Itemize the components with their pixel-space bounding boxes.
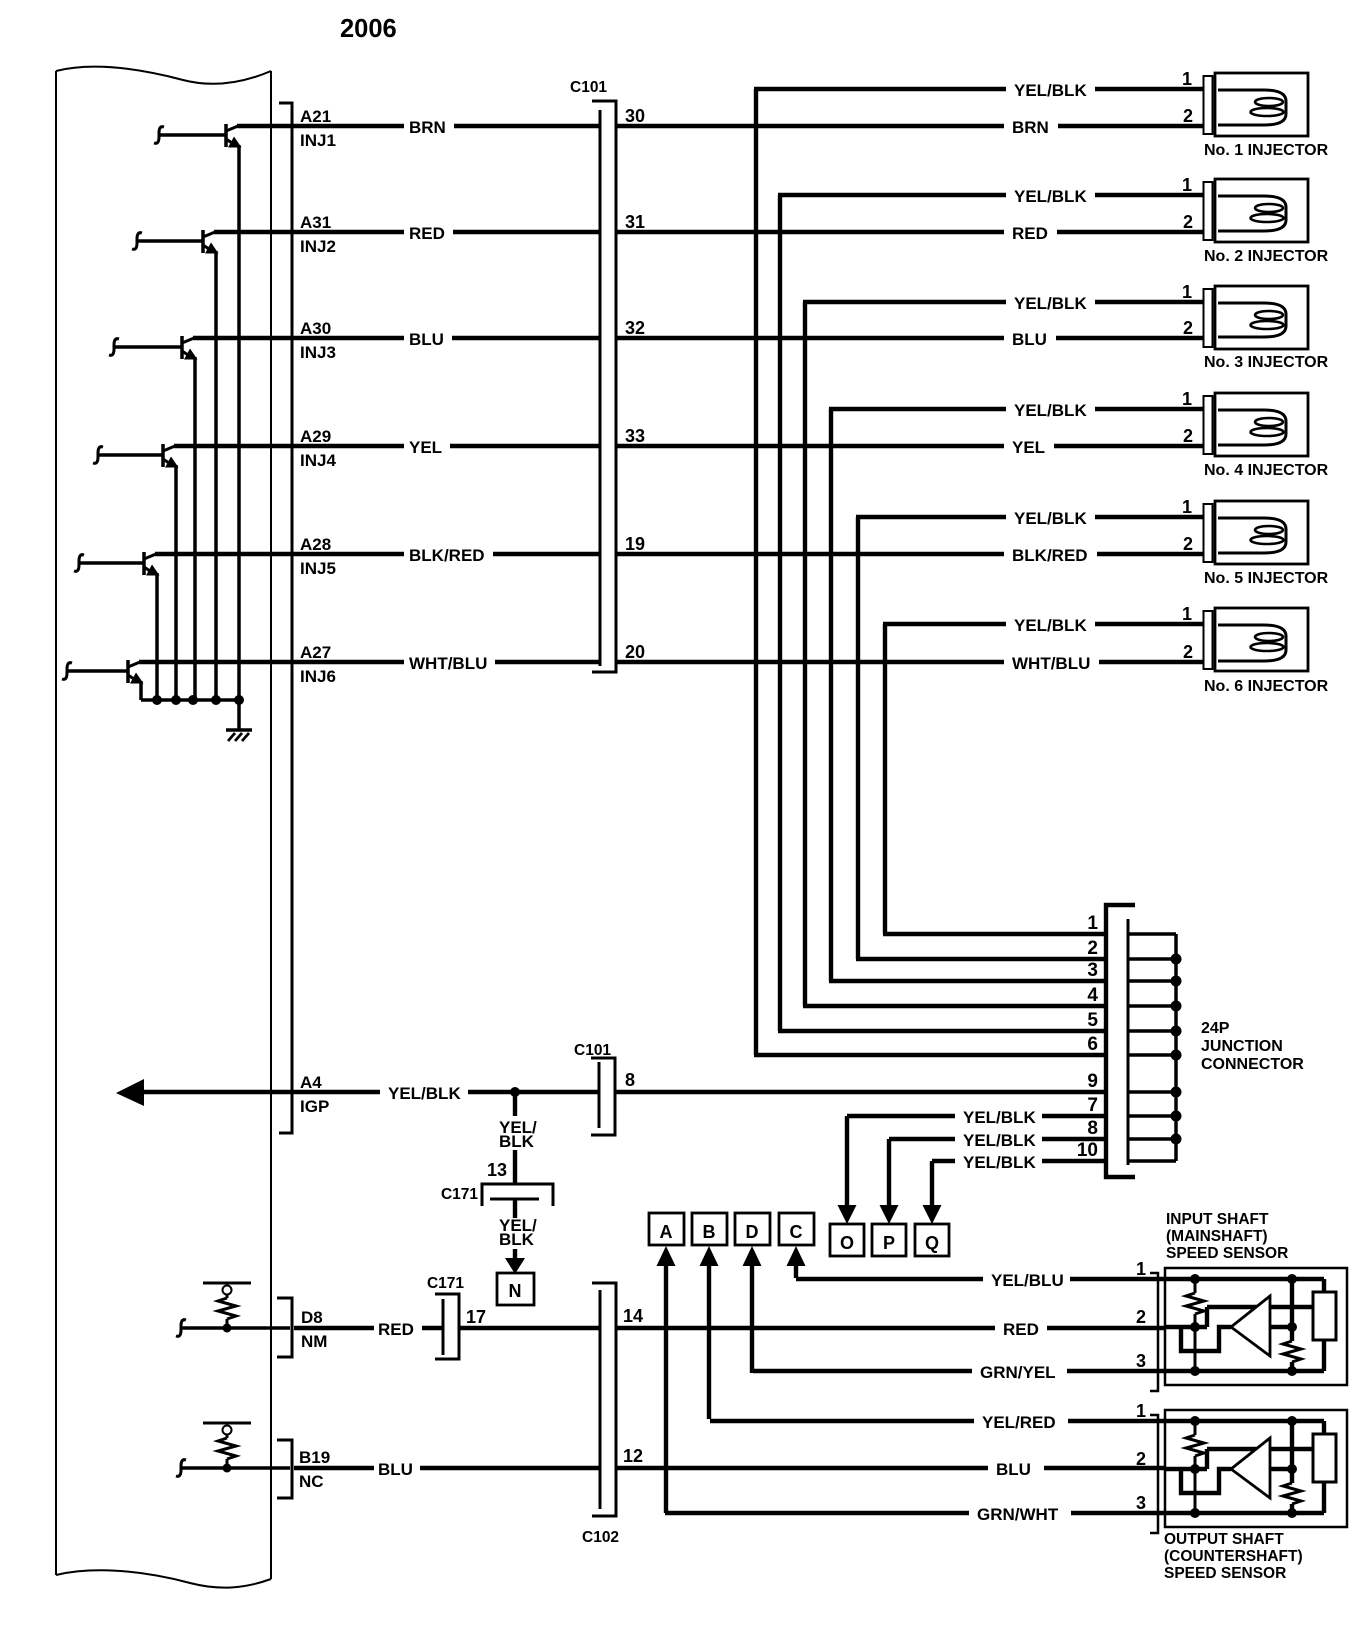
svg-text:1: 1 [1182, 282, 1192, 302]
wire YEL/BLK to injector 3 pin 1 [1095, 300, 1204, 304]
svg-text:A28: A28 [300, 535, 331, 554]
transistor Q5 (INJ5 driver) [74, 552, 160, 576]
wire RED to injector pin 2 [1057, 230, 1204, 234]
svg-text:A30: A30 [300, 319, 331, 338]
wire YEL C101 to injector 4 segment [616, 444, 1004, 448]
wire junction pin 4 horizontal [803, 1004, 1106, 1008]
wire C171 to N [513, 1199, 517, 1218]
wire BLU left [294, 1466, 374, 1470]
wire D8 stub [176, 1320, 290, 1337]
wire YEL/BLK A4 row left [142, 1090, 380, 1094]
wire BRN to injector pin 2 [1058, 124, 1204, 128]
wire bus to ground [237, 700, 241, 730]
node P box [872, 1224, 906, 1256]
svg-text:YEL: YEL [1012, 438, 1045, 457]
wire Q vertical from junction pin 10 [930, 1161, 934, 1208]
svg-text:6: 6 [1087, 1034, 1098, 1055]
wire junction pin 2 horizontal [856, 957, 1106, 961]
svg-text:32: 32 [625, 318, 645, 338]
arrow IGP continuation (points left) [116, 1079, 144, 1106]
svg-text:1: 1 [1182, 175, 1192, 195]
svg-text:1: 1 [1136, 1401, 1146, 1421]
svg-text:INJ2: INJ2 [300, 237, 336, 256]
svg-text:C171: C171 [441, 1186, 478, 1203]
injector L1 (No. 1 injector) [1204, 73, 1309, 136]
arrow into C [787, 1246, 806, 1266]
OUTPUT SHAFT (COUNTERSHAFT) SPEED SENSOR label [1164, 1531, 1303, 1582]
svg-text:4: 4 [1087, 985, 1098, 1006]
arrow into O [838, 1205, 857, 1224]
svg-text:2: 2 [1087, 938, 1098, 959]
svg-text:2: 2 [1183, 642, 1193, 662]
wire BRN row 1 left segment [237, 124, 404, 128]
ECU connector strip bracket [279, 103, 292, 1133]
wire GRN/YEL D to input sensor pin 3 segment [753, 1369, 972, 1373]
wire YEL/BLK injector 1 pin 1 segment [754, 87, 1006, 91]
connector C171 (horizontal) [482, 1184, 553, 1206]
svg-text:2: 2 [1183, 318, 1193, 338]
svg-text:8: 8 [1087, 1118, 1098, 1139]
node D8 bracket [277, 1298, 292, 1357]
wire RED to C171 [422, 1326, 443, 1330]
svg-text:A27: A27 [300, 643, 331, 662]
wire RED left [294, 1326, 374, 1330]
wire emitter Q1 to ground bus [237, 145, 241, 700]
svg-text:(MAINSHAFT): (MAINSHAFT) [1166, 1228, 1268, 1245]
svg-text:C101: C101 [570, 79, 607, 96]
svg-text:WHT/BLU: WHT/BLU [409, 654, 487, 673]
svg-text:BLK/RED: BLK/RED [409, 546, 485, 565]
svg-text:INJ5: INJ5 [300, 559, 336, 578]
svg-text:B19: B19 [299, 1448, 330, 1467]
svg-text:BLU: BLU [996, 1460, 1031, 1479]
output shaft speed sensor U2 internals [1150, 1410, 1347, 1533]
svg-text:2: 2 [1183, 426, 1193, 446]
connector 24P junction [1106, 905, 1135, 1177]
svg-text:13: 13 [487, 1160, 507, 1180]
wire emitter Q3 to ground bus [193, 357, 197, 700]
wire BRN C101 to injector 1 segment [616, 124, 1004, 128]
junction bus dot pin 4 [1171, 1001, 1182, 1012]
wire C vertical [794, 1262, 798, 1278]
arrow into Q [923, 1205, 942, 1224]
svg-text:IGP: IGP [300, 1097, 329, 1116]
svg-text:31: 31 [625, 212, 645, 232]
svg-text:19: 19 [625, 534, 645, 554]
transistor Q3 (INJ3 driver) [109, 336, 198, 360]
svg-text:14: 14 [623, 1306, 643, 1326]
wire stub junction pin 1 [1129, 932, 1176, 936]
node B19 bracket [277, 1440, 292, 1498]
svg-text:YEL/BLK: YEL/BLK [388, 1084, 461, 1103]
svg-text:YEL/BLK: YEL/BLK [1014, 81, 1087, 100]
svg-text:YEL/BLK: YEL/BLK [963, 1131, 1036, 1150]
wire WHT/BLU to injector pin 2 [1099, 660, 1204, 664]
connector C102 [592, 1283, 616, 1516]
wire BLU to output sensor pin 2 [1044, 1466, 1165, 1470]
svg-text:33: 33 [625, 426, 645, 446]
svg-text:24P: 24P [1201, 1020, 1230, 1037]
svg-text:1: 1 [1136, 1259, 1146, 1279]
wire branch to C171 [513, 1150, 517, 1184]
svg-text:YEL/BLK: YEL/BLK [1014, 616, 1087, 635]
node C box [779, 1213, 814, 1245]
injector L2 (No. 2 injector) [1204, 179, 1309, 242]
wire RED to C101 [453, 230, 600, 234]
ground [226, 730, 252, 741]
value label YEL/BLK (to N) [499, 1216, 537, 1249]
svg-text:BRN: BRN [409, 118, 446, 137]
wire vertical injector 5 to junction pin 2 [856, 517, 860, 959]
wire junction pin 8 horizontal segment [889, 1137, 955, 1141]
svg-text:BLK/RED: BLK/RED [1012, 546, 1088, 565]
injector L6 (No. 6 injector) [1204, 608, 1309, 671]
wire YEL/BLK to junction pin 8 [1042, 1137, 1106, 1141]
input shaft speed sensor U1 internals [1150, 1268, 1347, 1391]
injector L5 (No. 5 injector) [1204, 501, 1309, 564]
wire emitter Q6 to ground bus [139, 681, 143, 700]
svg-text:BRN: BRN [1012, 118, 1049, 137]
svg-text:RED: RED [378, 1320, 414, 1339]
svg-text:INJ3: INJ3 [300, 343, 336, 362]
arrow into D [743, 1246, 762, 1266]
svg-text:N: N [509, 1281, 522, 1301]
wire A vertical [664, 1262, 668, 1513]
junction emitter bus x=176 [171, 695, 181, 705]
svg-text:No. 5 INJECTOR: No. 5 INJECTOR [1204, 570, 1329, 587]
svg-text:8: 8 [625, 1070, 635, 1090]
svg-text:SPEED SENSOR: SPEED SENSOR [1164, 1565, 1286, 1582]
wire emitter Q4 to ground bus [174, 465, 178, 700]
wire YEL/BLK injector 5 pin 1 segment [856, 515, 1006, 519]
wire O vertical from junction pin 7 [845, 1116, 849, 1208]
wire RED C102 to sensor segment [616, 1326, 995, 1330]
junction bus dot pin 2 [1171, 954, 1182, 965]
svg-text:2: 2 [1183, 106, 1193, 126]
svg-text:A4: A4 [300, 1073, 322, 1092]
svg-text:A21: A21 [300, 107, 331, 126]
wire YEL to injector pin 2 [1054, 444, 1204, 448]
svg-text:GRN/WHT: GRN/WHT [977, 1505, 1059, 1524]
junction bus dot pin 9 [1171, 1087, 1182, 1098]
wire YEL/BLK branch down [513, 1092, 517, 1116]
node Q box [915, 1224, 949, 1256]
junction bus dot pin 7 [1171, 1111, 1182, 1122]
wire stub junction pin 2 [1129, 957, 1176, 961]
wire BLU C102 to sensor segment [616, 1466, 988, 1470]
wire emitter Q2 to ground bus [214, 251, 218, 700]
svg-text:C101: C101 [574, 1042, 611, 1059]
svg-text:30: 30 [625, 106, 645, 126]
svg-text:10: 10 [1077, 1140, 1098, 1161]
svg-text:YEL/BLK: YEL/BLK [1014, 509, 1087, 528]
svg-text:NM: NM [301, 1332, 327, 1351]
arrow into B [700, 1246, 719, 1266]
wire YEL/BLK injector 4 pin 1 segment [829, 407, 1006, 411]
wire BLK/RED C101 to injector 5 segment [616, 552, 1004, 556]
svg-text:No. 4 INJECTOR: No. 4 INJECTOR [1204, 462, 1329, 479]
svg-text:RED: RED [1003, 1320, 1039, 1339]
wire B vertical [707, 1262, 711, 1419]
svg-text:BLU: BLU [409, 330, 444, 349]
wire YEL row 4 left segment [174, 444, 404, 448]
svg-text:2: 2 [1183, 534, 1193, 554]
node O box [830, 1224, 864, 1256]
node B box [692, 1213, 727, 1245]
wire junction pin 10 horizontal segment [932, 1159, 955, 1163]
ECU block outline (engine control module) [56, 67, 271, 1588]
junction bus dot pin 6 [1171, 1050, 1182, 1061]
junction B19 resistor [223, 1464, 232, 1473]
junction emitter bus x=216 [211, 695, 221, 705]
svg-text:YEL/BLK: YEL/BLK [1014, 187, 1087, 206]
svg-text:BLK: BLK [499, 1230, 535, 1249]
wire BLU C101 to injector 3 segment [616, 336, 1004, 340]
wire junction pin 7 horizontal segment [847, 1114, 955, 1118]
svg-text:2: 2 [1136, 1449, 1146, 1469]
svg-text:2006: 2006 [340, 15, 397, 43]
wire WHT/BLU C101 to injector 6 segment [616, 660, 1004, 664]
svg-text:SPEED SENSOR: SPEED SENSOR [1166, 1245, 1288, 1262]
wire BLK/RED to C101 [493, 552, 600, 556]
wire BRN to C101 [454, 124, 600, 128]
wire vertical injector 3 to junction pin 4 [803, 302, 807, 1006]
wire vertical injector 1 to junction pin 6 [754, 89, 758, 1055]
wire junction pin 5 horizontal [778, 1029, 1106, 1033]
svg-text:CONNECTOR: CONNECTOR [1201, 1056, 1304, 1073]
junction emitter bus x=239 [234, 695, 244, 705]
svg-text:C102: C102 [582, 1529, 619, 1546]
wire stub junction pin 10 [1129, 1159, 1176, 1163]
svg-text:20: 20 [625, 642, 645, 662]
wire YEL/BLK to injector 2 pin 1 [1095, 193, 1204, 197]
wire BLK/RED row 5 left segment [155, 552, 404, 556]
wire junction bus [1174, 934, 1178, 1161]
svg-text:YEL/BLU: YEL/BLU [991, 1271, 1064, 1290]
connector C171 (vertical) [435, 1294, 459, 1359]
svg-text:RED: RED [1012, 224, 1048, 243]
svg-text:9: 9 [1087, 1071, 1098, 1092]
svg-text:B: B [703, 1222, 716, 1242]
wire YEL/BLK injector 6 pin 1 segment [883, 622, 1006, 626]
junction emitter bus x=157 [152, 695, 162, 705]
connector C101 [592, 101, 616, 672]
wire stub junction pin 3 [1129, 979, 1176, 983]
transistor Q4 (INJ4 driver) [93, 444, 179, 468]
svg-text:5: 5 [1087, 1010, 1098, 1031]
wire YEL/BLK injector 2 pin 1 segment [778, 193, 1006, 197]
svg-text:17: 17 [466, 1307, 486, 1327]
svg-text:WHT/BLU: WHT/BLU [1012, 654, 1090, 673]
svg-text:A: A [660, 1222, 673, 1242]
wire RED to input sensor pin 2 [1047, 1326, 1165, 1330]
wire YEL/RED B to output sensor pin 1 segment [710, 1419, 974, 1423]
svg-text:A31: A31 [300, 213, 331, 232]
svg-text:No. 2 INJECTOR: No. 2 INJECTOR [1204, 248, 1329, 265]
svg-text:2: 2 [1183, 212, 1193, 232]
wire YEL/BLU to input sensor [1070, 1277, 1165, 1281]
wire YEL/RED to output sensor [1068, 1419, 1165, 1423]
svg-text:3: 3 [1136, 1351, 1146, 1371]
svg-text:RED: RED [409, 224, 445, 243]
junction bus dot pin 5 [1171, 1026, 1182, 1037]
junction bus dot pin 3 [1171, 976, 1182, 987]
value label YEL/BLK (branch) [499, 1118, 537, 1151]
wire YEL/BLK A4 to C101 [468, 1090, 599, 1094]
wire YEL/BLK to injector 1 pin 1 [1095, 87, 1204, 91]
svg-text:JUNCTION: JUNCTION [1201, 1038, 1283, 1055]
svg-text:2: 2 [1136, 1307, 1146, 1327]
wire YEL/BLK to injector 5 pin 1 [1095, 515, 1204, 519]
wire vertical injector 2 to junction pin 5 [778, 195, 782, 1031]
wire vertical injector 6 to junction pin 1 [883, 624, 887, 934]
svg-text:1: 1 [1182, 389, 1192, 409]
svg-text:BLU: BLU [1012, 330, 1047, 349]
svg-text:P: P [883, 1233, 895, 1253]
svg-text:3: 3 [1136, 1493, 1146, 1513]
arrow into P [880, 1205, 899, 1224]
wire RED C171 to C102 [459, 1326, 600, 1330]
wire BLU to injector pin 2 [1056, 336, 1204, 340]
wire RED C101 to injector 2 segment [616, 230, 1004, 234]
svg-text:INJ6: INJ6 [300, 667, 336, 686]
resistor pull-up B19 [203, 1423, 251, 1468]
svg-text:1: 1 [1182, 497, 1192, 517]
wire emitter Q5 to ground bus [155, 573, 159, 700]
svg-text:1: 1 [1182, 69, 1192, 89]
svg-text:12: 12 [623, 1446, 643, 1466]
svg-text:D8: D8 [301, 1308, 323, 1327]
svg-text:1: 1 [1087, 913, 1098, 934]
wire YEL/BLK to injector 6 pin 1 [1095, 622, 1204, 626]
svg-text:No. 6 INJECTOR: No. 6 INJECTOR [1204, 678, 1329, 695]
wire BLK/RED to injector pin 2 [1097, 552, 1204, 556]
wire YEL/BLK injector 3 pin 1 segment [803, 300, 1006, 304]
svg-text:GRN/YEL: GRN/YEL [980, 1363, 1056, 1382]
arrow into A [657, 1246, 676, 1266]
wire P vertical from junction pin 8 [887, 1139, 891, 1208]
wire stub junction pin 7 [1129, 1114, 1176, 1118]
junction emitter bus x=193 [188, 695, 198, 705]
wire stub junction pin 6 [1129, 1053, 1176, 1057]
wire BLU to C102 [420, 1466, 600, 1470]
svg-text:BLU: BLU [378, 1460, 413, 1479]
connector C101 (second) [591, 1058, 615, 1135]
wire WHT/BLU row 6 left segment [139, 660, 404, 664]
resistor pull-up D8 [203, 1283, 251, 1328]
svg-text:YEL/BLK: YEL/BLK [1014, 294, 1087, 313]
svg-text:A29: A29 [300, 427, 331, 446]
24P JUNCTION CONNECTOR label [1201, 1020, 1304, 1073]
node N box [497, 1273, 534, 1305]
wire junction pin 6 horizontal [754, 1053, 1106, 1057]
svg-text:7: 7 [1087, 1095, 1098, 1116]
svg-text:C171: C171 [427, 1275, 464, 1292]
node D box [735, 1213, 770, 1245]
svg-text:YEL: YEL [409, 438, 442, 457]
injector L4 (No. 4 injector) [1204, 393, 1309, 456]
wire B19 stub [176, 1460, 290, 1477]
wire stub junction pin 5 [1129, 1029, 1176, 1033]
svg-text:O: O [840, 1233, 854, 1253]
svg-text:No. 3 INJECTOR: No. 3 INJECTOR [1204, 354, 1329, 371]
wire YEL/BLK to junction pin 7 [1042, 1114, 1106, 1118]
wire YEL/BLK to junction pin 10 [1042, 1159, 1106, 1163]
svg-text:D: D [746, 1222, 759, 1242]
wire WHT/BLU to C101 [495, 660, 600, 664]
wire vertical injector 4 to junction pin 3 [829, 409, 833, 981]
transistor Q1 (INJ1 driver) [154, 124, 242, 148]
wire junction pin 1 horizontal [883, 932, 1106, 936]
svg-text:1: 1 [1182, 604, 1192, 624]
svg-text:BLK: BLK [499, 1132, 535, 1151]
wire GRN/WHT A to output sensor pin 3 segment [665, 1511, 969, 1515]
svg-text:YEL/BLK: YEL/BLK [963, 1153, 1036, 1172]
wire stub junction pin 8 [1129, 1137, 1176, 1141]
svg-text:3: 3 [1087, 960, 1098, 981]
INPUT SHAFT (MAINSHAFT) SPEED SENSOR label [1166, 1211, 1288, 1262]
svg-text:(COUNTERSHAFT): (COUNTERSHAFT) [1164, 1548, 1303, 1565]
arrow into N [505, 1258, 525, 1274]
injector L3 (No. 3 injector) [1204, 286, 1309, 349]
svg-text:INJ4: INJ4 [300, 451, 336, 470]
wire junction pin 3 horizontal [829, 979, 1106, 983]
wire GRN/WHT to output sensor [1071, 1511, 1165, 1515]
wire RED row 2 left segment [214, 230, 404, 234]
wire YEL/BLU C to input sensor pin 1 segment [796, 1277, 983, 1281]
transistor Q6 (INJ6 driver) [62, 660, 144, 684]
wire BLU to C101 [452, 336, 600, 340]
wire YEL/BLK to injector 4 pin 1 [1095, 407, 1204, 411]
transistor Q2 (INJ2 driver) [132, 230, 219, 254]
svg-text:OUTPUT SHAFT: OUTPUT SHAFT [1164, 1531, 1284, 1548]
svg-text:YEL/BLK: YEL/BLK [1014, 401, 1087, 420]
wire YEL/BLK A4 to junction pin 9 [615, 1090, 1106, 1094]
wire stub junction pin 4 [1129, 1004, 1176, 1008]
svg-text:YEL/RED: YEL/RED [982, 1413, 1056, 1432]
wire YEL to C101 [450, 444, 600, 448]
wire GRN/YEL to input sensor [1067, 1369, 1165, 1373]
wire into N [513, 1249, 517, 1262]
svg-text:INPUT SHAFT: INPUT SHAFT [1166, 1211, 1269, 1228]
svg-text:INJ1: INJ1 [300, 131, 336, 150]
wire D vertical [750, 1262, 754, 1373]
junction D8 resistor [223, 1324, 232, 1333]
svg-text:Q: Q [925, 1233, 939, 1253]
svg-text:YEL/BLK: YEL/BLK [963, 1108, 1036, 1127]
junction bus dot pin 8 [1171, 1134, 1182, 1145]
ground bus wire [141, 698, 239, 702]
node A box [649, 1213, 684, 1245]
svg-text:No. 1 INJECTOR: No. 1 INJECTOR [1204, 142, 1329, 159]
junction node A4 branch [510, 1087, 520, 1097]
svg-text:NC: NC [299, 1472, 324, 1491]
wire BLU row 3 left segment [193, 336, 404, 340]
wire stub junction pin 9 [1129, 1090, 1176, 1094]
svg-text:C: C [790, 1222, 803, 1242]
